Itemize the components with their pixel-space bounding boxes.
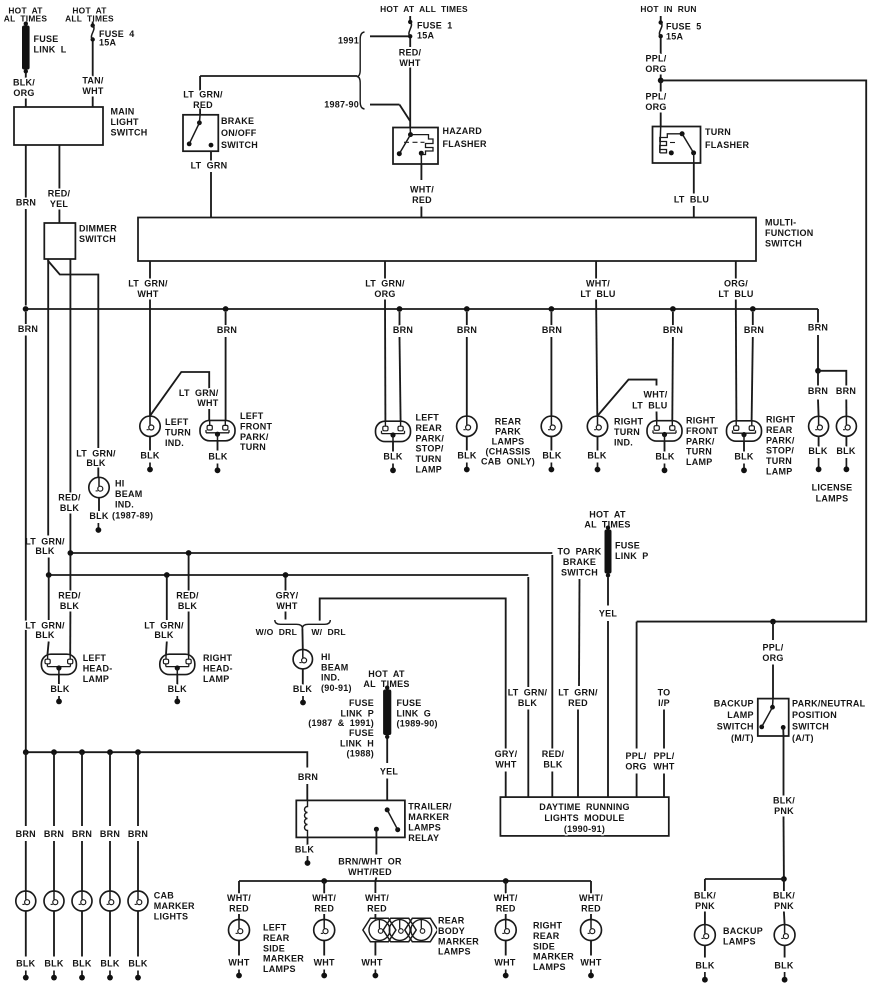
svg-text:WHT: WHT — [399, 58, 420, 68]
svg-text:BLK/: BLK/ — [13, 78, 35, 88]
svg-text:PNK: PNK — [774, 901, 794, 911]
svg-text:RED: RED — [314, 903, 334, 913]
svg-text:FRONT: FRONT — [240, 421, 272, 431]
svg-text:BACKUP: BACKUP — [714, 699, 754, 709]
wire PPL/ORG to turn flasher — [660, 80, 662, 91]
svg-text:FUNCTION: FUNCTION — [765, 228, 814, 238]
wire branch to left front park (diagonal) — [150, 372, 209, 416]
svg-text:BRN: BRN — [836, 386, 856, 396]
svg-text:HI: HI — [115, 479, 125, 489]
svg-text:LT GRN/: LT GRN/ — [179, 388, 219, 398]
svg-text:PPL/: PPL/ — [762, 643, 783, 653]
svg-text:BLK: BLK — [587, 451, 606, 461]
svg-text:W/O DRL: W/O DRL — [256, 627, 297, 637]
lamp license left — [809, 416, 829, 436]
fuse F4 15A — [92, 22, 94, 26]
svg-text:BLK: BLK — [44, 959, 63, 969]
svg-text:WHT/: WHT/ — [644, 390, 668, 400]
svg-text:CAB: CAB — [154, 891, 174, 901]
svg-text:SIDE: SIDE — [533, 941, 555, 951]
lamp marker 591 — [581, 920, 602, 941]
wire BLK + ground — [149, 437, 151, 451]
svg-text:LEFT: LEFT — [240, 411, 264, 421]
svg-text:LINK L: LINK L — [34, 44, 67, 54]
svg-text:PARK/: PARK/ — [240, 432, 269, 442]
svg-text:LIGHT: LIGHT — [111, 117, 139, 127]
wire WHT/RED drop 591 — [590, 881, 592, 894]
wire LT GRN/RED to brake switch — [200, 75, 357, 77]
trailer/marker lamps relay — [296, 800, 405, 837]
svg-text:LT BLU: LT BLU — [674, 195, 709, 205]
svg-text:LAMP: LAMP — [416, 465, 443, 475]
svg-text:LAMP: LAMP — [686, 457, 713, 467]
svg-text:MARKER: MARKER — [154, 901, 195, 911]
svg-text:WHT: WHT — [495, 759, 516, 769]
svg-text:BLK: BLK — [383, 452, 402, 462]
svg-text:BEAM: BEAM — [321, 662, 349, 672]
wire BLK/PNK from switch — [782, 727, 784, 736]
svg-text:ORG: ORG — [374, 289, 395, 299]
lamp license right — [836, 416, 856, 436]
svg-text:STOP/: STOP/ — [766, 446, 794, 456]
multi-function switch — [138, 218, 756, 262]
svg-text:RED: RED — [412, 195, 432, 205]
svg-text:MARKER: MARKER — [438, 936, 479, 946]
wire WHT/RED — [420, 164, 422, 180]
svg-text:BLK/: BLK/ — [773, 796, 795, 806]
svg-text:SWITCH: SWITCH — [765, 238, 802, 248]
svg-text:POSITION: POSITION — [792, 710, 837, 720]
wire from dimmer straight down — [47, 259, 49, 536]
wire RED/BLK headlamp line — [70, 552, 552, 554]
lamp cab marker 110 — [100, 891, 120, 911]
svg-text:BRN: BRN — [128, 829, 148, 839]
wire RED/WHT — [409, 38, 411, 47]
svg-text:LT GRN/: LT GRN/ — [558, 688, 598, 698]
svg-text:(CHASSIS: (CHASSIS — [485, 447, 530, 457]
svg-text:BLK: BLK — [16, 959, 35, 969]
svg-text:GRY/: GRY/ — [276, 591, 299, 601]
svg-text:BRN: BRN — [44, 829, 64, 839]
svg-text:WHT/: WHT/ — [494, 893, 518, 903]
svg-text:TO: TO — [658, 688, 671, 698]
svg-text:REAR: REAR — [766, 425, 793, 435]
wire WHT/RED drop rear body — [374, 881, 376, 894]
svg-text:BRN: BRN — [16, 829, 36, 839]
svg-text:BRN: BRN — [393, 325, 413, 335]
svg-text:FLASHER: FLASHER — [443, 139, 488, 149]
lamp cab marker 25.8 — [16, 891, 36, 911]
svg-text:BRN: BRN — [663, 325, 683, 335]
svg-text:BLK: BLK — [168, 684, 187, 694]
wire YEL to DRL — [607, 578, 609, 606]
svg-text:MARKER: MARKER — [408, 812, 449, 822]
svg-text:WHT/: WHT/ — [586, 279, 610, 289]
wire YEL to relay — [386, 739, 388, 764]
wire LT GRN/BLK to DRL — [527, 577, 529, 687]
svg-text:BRN: BRN — [100, 829, 120, 839]
fuse F5 15A — [660, 16, 662, 22]
wire LT GRN/ORG output — [384, 261, 386, 279]
wire from dimmer (low beam, jog right) — [48, 259, 98, 448]
svg-text:RED: RED — [568, 698, 588, 708]
wire PPL/ORG — [660, 38, 662, 54]
svg-text:(1988): (1988) — [346, 749, 374, 759]
wire RED/BLK to left headlamp — [69, 555, 71, 591]
lamp right rear park/stop/turn — [727, 421, 762, 441]
wire BRN cab marker 138 — [137, 752, 139, 826]
svg-text:BLK: BLK — [178, 601, 197, 611]
svg-text:WHT: WHT — [82, 86, 103, 96]
svg-text:SWITCH: SWITCH — [717, 722, 754, 732]
svg-text:LT GRN/: LT GRN/ — [144, 621, 184, 631]
wire WHT/RED drop 239 — [238, 881, 240, 894]
svg-text:WHT/: WHT/ — [410, 185, 434, 195]
svg-text:FLASHER: FLASHER — [705, 140, 750, 150]
svg-text:BLK: BLK — [457, 451, 476, 461]
wire RED/YEL — [58, 145, 60, 189]
svg-text:I/P: I/P — [658, 698, 670, 708]
svg-text:PARK/NEUTRAL: PARK/NEUTRAL — [792, 699, 866, 709]
wire LT GRN/BLK to right headlamp — [166, 577, 168, 620]
svg-text:HAZARD: HAZARD — [443, 126, 483, 136]
svg-text:15A: 15A — [417, 31, 435, 41]
svg-text:WHT: WHT — [314, 958, 335, 968]
wire branch to right front park (diagonal) — [597, 380, 656, 416]
lamp right front park/turn — [647, 421, 682, 441]
turn flasher — [653, 127, 701, 164]
svg-text:WHT: WHT — [137, 289, 158, 299]
wire BRN drop rear park lamp 2 — [549, 306, 555, 312]
relay coil — [305, 800, 308, 837]
svg-text:SWITCH: SWITCH — [111, 127, 148, 137]
lamp marker 505.7 — [495, 920, 516, 941]
svg-text:BACKUP: BACKUP — [723, 926, 763, 936]
lamp cab marker 54 — [44, 891, 64, 911]
wire BRN cab marker 25.8 — [25, 752, 27, 826]
svg-text:ORG: ORG — [625, 761, 646, 771]
svg-text:RED/: RED/ — [399, 48, 422, 58]
svg-text:DAYTIME RUNNING: DAYTIME RUNNING — [539, 802, 629, 812]
svg-text:SWITCH: SWITCH — [792, 722, 829, 732]
svg-text:YEL: YEL — [50, 199, 69, 209]
svg-text:LT GRN/: LT GRN/ — [508, 688, 548, 698]
svg-text:WHT: WHT — [361, 958, 382, 968]
wire WHT/LT BLU output — [595, 261, 597, 279]
svg-text:1987-90: 1987-90 — [324, 100, 359, 110]
svg-text:LINK G: LINK G — [397, 708, 432, 718]
wire LT GRN/BLK headlamp line — [49, 574, 529, 576]
svg-text:PARK: PARK — [495, 427, 521, 437]
svg-text:IND.: IND. — [115, 499, 134, 509]
svg-text:(1989-90): (1989-90) — [397, 719, 438, 729]
wire BRN from main light switch — [25, 145, 27, 198]
BRN park lamp bus — [26, 308, 818, 310]
svg-text:TURN: TURN — [614, 427, 640, 437]
daytime running lights module — [500, 797, 668, 836]
lamp marker 324.2 — [314, 920, 335, 941]
wire PPL/ORG to backup switch — [772, 622, 774, 640]
svg-text:BLK: BLK — [86, 458, 105, 468]
wire LT GRN/RED — [578, 579, 581, 686]
svg-text:BLK: BLK — [774, 961, 793, 971]
svg-text:BLK/: BLK/ — [694, 891, 716, 901]
svg-text:FUSE 1: FUSE 1 — [417, 21, 453, 31]
svg-text:LINK P: LINK P — [615, 551, 649, 561]
wire LT BLU — [693, 163, 695, 194]
svg-text:SWITCH: SWITCH — [221, 140, 258, 150]
svg-text:BLK: BLK — [734, 452, 753, 462]
svg-text:WHT/RED: WHT/RED — [348, 867, 392, 877]
lamp right turn ind — [587, 416, 607, 436]
svg-text:LIGHTS MODULE: LIGHTS MODULE — [544, 813, 624, 823]
lamp rear body marker cluster — [363, 918, 396, 942]
svg-text:BRN: BRN — [18, 324, 38, 334]
wire GRY/WHT w/o drl — [285, 577, 287, 592]
node PPL/ORG branch — [770, 619, 776, 625]
svg-text:BLK: BLK — [695, 961, 714, 971]
lamp cab marker 82 — [72, 891, 92, 911]
svg-text:RED: RED — [581, 903, 601, 913]
svg-text:HI: HI — [321, 652, 331, 662]
svg-text:BODY: BODY — [438, 926, 465, 936]
node cab marker taps — [23, 749, 29, 755]
svg-text:(90-91): (90-91) — [321, 683, 352, 693]
svg-text:HOT IN RUN: HOT IN RUN — [640, 4, 696, 14]
main light switch — [14, 107, 103, 145]
svg-text:ORG: ORG — [645, 64, 666, 74]
wire W/ DRL line — [320, 598, 506, 748]
svg-text:ON/OFF: ON/OFF — [221, 128, 257, 138]
svg-text:(1990-91): (1990-91) — [564, 824, 605, 834]
svg-text:REAR: REAR — [263, 933, 290, 943]
svg-text:TAN/: TAN/ — [82, 76, 104, 86]
svg-text:(M/T): (M/T) — [731, 733, 754, 743]
svg-text:LIGHTS: LIGHTS — [154, 912, 189, 922]
svg-text:WHT: WHT — [276, 601, 297, 611]
svg-text:RED: RED — [229, 903, 249, 913]
svg-text:RED/: RED/ — [176, 591, 199, 601]
svg-text:BLK: BLK — [72, 959, 91, 969]
lamp marker 239 — [229, 920, 250, 941]
lamp rear park 1 — [457, 416, 477, 436]
svg-text:ORG: ORG — [13, 88, 34, 98]
svg-text:LAMPS: LAMPS — [816, 494, 849, 504]
svg-text:RED: RED — [367, 903, 387, 913]
svg-text:FUSE: FUSE — [397, 698, 422, 708]
svg-text:REAR: REAR — [533, 931, 560, 941]
svg-text:LT GRN/: LT GRN/ — [76, 449, 116, 459]
wire BRN/WHT or WHT/RED — [375, 829, 377, 854]
svg-text:BLK: BLK — [140, 451, 159, 461]
wire BRN drop right rear — [750, 306, 756, 312]
fuse link L — [25, 23, 27, 25]
node bus left end — [23, 306, 29, 312]
svg-text:HOT AT ALL TIMES: HOT AT ALL TIMES — [380, 4, 468, 14]
svg-text:SWITCH: SWITCH — [79, 234, 116, 244]
svg-text:IND.: IND. — [614, 437, 633, 447]
svg-text:RIGHT: RIGHT — [533, 921, 563, 931]
svg-text:WHT/: WHT/ — [365, 893, 389, 903]
svg-text:BRAKE: BRAKE — [563, 557, 596, 567]
svg-text:ALL TIMES: ALL TIMES — [65, 14, 114, 24]
wire LT GRN — [210, 151, 212, 160]
wire BRN drop left rear — [397, 306, 403, 312]
svg-text:PPL/: PPL/ — [645, 54, 666, 64]
svg-text:MARKER: MARKER — [263, 954, 304, 964]
svg-text:PNK: PNK — [695, 901, 715, 911]
wire LT GRN/BLK to left headlamp — [48, 577, 50, 620]
svg-text:RED/: RED/ — [58, 591, 81, 601]
svg-text:WHT/: WHT/ — [227, 893, 251, 903]
svg-text:FUSE: FUSE — [34, 34, 59, 44]
svg-text:(A/T): (A/T) — [792, 733, 814, 743]
lamp left rear park/stop/turn — [376, 421, 411, 441]
svg-text:IND.: IND. — [321, 673, 340, 683]
svg-text:SIDE: SIDE — [263, 943, 285, 953]
svg-text:LT BLU: LT BLU — [632, 401, 667, 411]
fuse link G — [385, 686, 389, 690]
svg-text:PPL/: PPL/ — [625, 751, 646, 761]
svg-text:BRN: BRN — [808, 323, 828, 333]
svg-text:(1987 & 1991): (1987 & 1991) — [308, 718, 374, 728]
dimmer switch — [44, 223, 75, 259]
svg-text:BRN: BRN — [457, 325, 477, 335]
svg-text:WHT: WHT — [580, 958, 601, 968]
svg-text:WHT/: WHT/ — [579, 893, 603, 903]
lamp left headlamp — [41, 654, 76, 674]
svg-text:BEAM: BEAM — [115, 489, 143, 499]
svg-text:TURN: TURN — [686, 447, 712, 457]
svg-text:LT GRN/: LT GRN/ — [25, 621, 65, 631]
svg-text:PARK/: PARK/ — [416, 433, 445, 443]
svg-text:LAMP: LAMP — [203, 674, 230, 684]
svg-text:STOP/: STOP/ — [416, 444, 444, 454]
svg-text:LT BLU: LT BLU — [718, 289, 753, 299]
svg-text:BRN: BRN — [16, 198, 36, 208]
lamp right headlamp — [160, 654, 195, 674]
svg-text:MAIN: MAIN — [111, 107, 135, 117]
svg-text:LAMP: LAMP — [83, 674, 110, 684]
svg-text:TURN: TURN — [416, 454, 442, 464]
svg-text:LT GRN/: LT GRN/ — [365, 279, 405, 289]
node license split — [815, 368, 821, 374]
wire ORG/LT BLU output — [735, 261, 737, 279]
svg-text:1991: 1991 — [338, 36, 359, 46]
svg-text:LT GRN: LT GRN — [191, 161, 228, 171]
wire BRN cab marker 82 — [81, 752, 83, 826]
svg-text:BRN: BRN — [542, 325, 562, 335]
svg-text:HEAD-: HEAD- — [83, 663, 113, 673]
svg-text:BLK: BLK — [208, 452, 227, 462]
wire BRN drop left front — [223, 306, 229, 312]
svg-text:BLK: BLK — [60, 601, 79, 611]
node PPL/ORG junction — [658, 78, 664, 84]
svg-text:BRN: BRN — [744, 325, 764, 335]
svg-text:TO PARK: TO PARK — [558, 547, 602, 557]
svg-text:LAMP: LAMP — [727, 710, 754, 720]
wire BRN drop rear park lamp 1 — [464, 306, 470, 312]
svg-text:15A: 15A — [666, 32, 684, 42]
svg-text:LEFT: LEFT — [83, 653, 107, 663]
svg-text:RIGHT: RIGHT — [614, 417, 644, 427]
svg-text:LAMPS: LAMPS — [533, 962, 566, 972]
svg-text:BLK/: BLK/ — [773, 891, 795, 901]
svg-text:BLK: BLK — [295, 845, 314, 855]
svg-text:TURN: TURN — [165, 427, 191, 437]
svg-text:W/ DRL: W/ DRL — [311, 627, 346, 637]
svg-text:BLK: BLK — [293, 684, 312, 694]
svg-text:RIGHT: RIGHT — [766, 415, 796, 425]
svg-text:BLK: BLK — [655, 452, 674, 462]
lamp left turn ind — [140, 416, 160, 436]
svg-text:REAR: REAR — [416, 423, 443, 433]
svg-text:LT GRN/: LT GRN/ — [128, 279, 168, 289]
svg-text:BLK: BLK — [154, 630, 173, 640]
wire marker lamp bus — [239, 880, 591, 882]
svg-text:BLK: BLK — [836, 446, 855, 456]
svg-text:HEAD-: HEAD- — [203, 663, 233, 673]
svg-text:BLK: BLK — [35, 630, 54, 640]
svg-text:BRN: BRN — [72, 829, 92, 839]
wire PPL/ORG to DRL — [636, 622, 638, 749]
lamp backup right — [774, 925, 795, 946]
svg-text:LINK P: LINK P — [340, 708, 374, 718]
svg-text:TURN: TURN — [240, 442, 266, 452]
lamp cab marker 138 — [128, 891, 148, 911]
wire LT GRN/WHT output — [149, 261, 151, 279]
svg-text:TURN: TURN — [705, 127, 731, 137]
wire BRN drop right front — [670, 306, 676, 312]
hazard flasher — [393, 128, 438, 165]
svg-text:BLK: BLK — [50, 684, 69, 694]
svg-text:PPL/: PPL/ — [653, 751, 674, 761]
lamp left front park/turn — [200, 420, 235, 440]
wire PPL/ORG feed loop (right edge) — [637, 80, 867, 621]
svg-text:FUSE: FUSE — [349, 728, 374, 738]
svg-text:LAMPS: LAMPS — [408, 823, 441, 833]
svg-text:WHT: WHT — [653, 761, 674, 771]
svg-text:WHT/: WHT/ — [312, 893, 336, 903]
svg-text:REAR: REAR — [438, 916, 465, 926]
svg-text:LAMPS: LAMPS — [438, 947, 471, 957]
backup lamp switch box — [758, 699, 789, 736]
svg-text:BRAKE: BRAKE — [221, 116, 254, 126]
svg-text:WHT: WHT — [494, 958, 515, 968]
svg-text:MARKER: MARKER — [533, 952, 574, 962]
svg-text:WHT: WHT — [228, 958, 249, 968]
svg-text:PPL/: PPL/ — [645, 92, 666, 102]
svg-text:BLK: BLK — [518, 698, 537, 708]
lamp rear park 2 — [541, 416, 561, 436]
wire TAN/WHT — [92, 42, 94, 77]
lamp backup left — [695, 925, 716, 946]
svg-text:IND.: IND. — [165, 438, 184, 448]
svg-text:SWITCH: SWITCH — [561, 567, 598, 577]
svg-text:PARK/: PARK/ — [766, 435, 795, 445]
svg-text:MULTI-: MULTI- — [765, 218, 796, 228]
svg-text:BLK: BLK — [89, 511, 108, 521]
fuse link P — [606, 526, 610, 530]
svg-text:BRN: BRN — [298, 772, 318, 782]
svg-text:LEFT: LEFT — [263, 923, 287, 933]
svg-text:DIMMER: DIMMER — [79, 224, 117, 234]
svg-text:RED/: RED/ — [542, 749, 565, 759]
svg-text:BLK: BLK — [808, 446, 827, 456]
svg-text:TRAILER/: TRAILER/ — [408, 802, 452, 812]
svg-text:LINK H: LINK H — [340, 738, 374, 748]
svg-text:REAR: REAR — [495, 417, 522, 427]
